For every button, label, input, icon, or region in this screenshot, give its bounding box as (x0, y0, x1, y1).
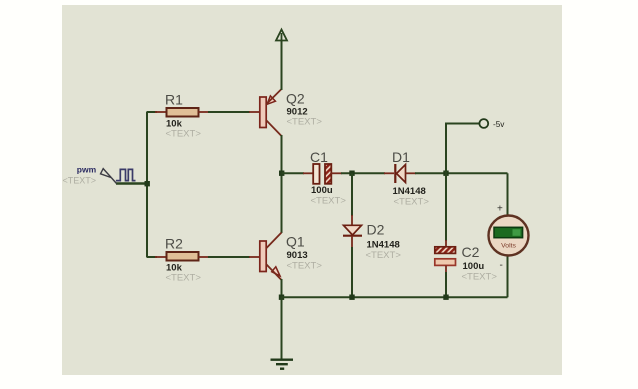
svg-text:<TEXT>: <TEXT> (366, 250, 402, 261)
wire: Q1 emitter to bottom rail (281, 279, 283, 298)
pwm square-wave glyph (116, 169, 136, 180)
svg-text:D2: D2 (367, 222, 385, 238)
wire: node IN vertical (R1 left to R2 left) (146, 112, 148, 258)
wire: C2 to bottom rail (445, 272, 447, 297)
diode D1 (1N4148) (395, 164, 405, 183)
wire: C1 right pin (331, 172, 342, 174)
wire: C1 left pin (303, 172, 313, 174)
wire: D2 bottom pin (351, 236, 353, 248)
C1 right plate (hatched) (325, 164, 331, 184)
voltmeter display (494, 227, 523, 237)
junction: D2 bottom (349, 295, 354, 300)
svg-text:<TEXT>: <TEXT> (311, 196, 347, 207)
wire: R2 to Q1 base (208, 256, 250, 258)
svg-text:<TEXT>: <TEXT> (166, 129, 202, 140)
D2 triangle (344, 225, 362, 235)
Q2 emitter arrow (PNP, pointing to base) (267, 96, 275, 104)
C2 bottom plate (435, 259, 456, 266)
svg-text:Q1: Q1 (286, 234, 305, 250)
svg-text:C2: C2 (462, 244, 480, 260)
D2 cathode bar (343, 235, 362, 237)
power terminal arrow (+V) (276, 30, 287, 41)
svg-text:100u: 100u (463, 261, 485, 272)
wire: R1 left pin area (147, 111, 157, 113)
wire: ground stem (281, 297, 283, 359)
ground (271, 360, 294, 369)
wire: Q2 emitter up to power (281, 40, 283, 90)
wire: R2 left pin area (147, 256, 157, 258)
wire: C1 to D2 node (341, 172, 385, 174)
wire: down to voltmeter + (507, 173, 509, 215)
wire: bottom rail (282, 296, 508, 298)
Q2 base bar (260, 97, 266, 128)
wire: D1 to -5v node (415, 172, 508, 174)
transistor Q2 (PNP 9012) (260, 89, 282, 136)
junction: D2 branch (349, 171, 354, 176)
svg-text:R2: R2 (165, 236, 183, 252)
svg-text:+: + (497, 204, 503, 215)
svg-text:-: - (500, 260, 503, 271)
schematic canvas (62, 5, 562, 375)
resistor R1 (167, 108, 199, 117)
svg-text:9013: 9013 (287, 250, 308, 261)
Q1 emitter arrow (NPN, pointing out) (272, 267, 280, 276)
diode D2 (1N4148, pointing down) (343, 225, 362, 235)
Q2 collector slant (266, 120, 282, 136)
wire: pwm horizontal into node IN (116, 182, 148, 185)
wire: C2 branch vertical top (445, 173, 447, 241)
transistor Q1 (NPN 9013) (260, 233, 282, 281)
resistor R2 (167, 252, 199, 261)
wire: R2 right pin (199, 256, 210, 258)
svg-text:Volts: Volts (501, 243, 516, 250)
capacitor C1 (100u) (313, 164, 331, 184)
capacitor C2 (100u polarized) (435, 247, 456, 266)
C1 left plate (313, 164, 319, 184)
junction: -5v / C2 node (443, 171, 448, 176)
svg-text:<TEXT>: <TEXT> (166, 273, 202, 284)
wire: R1 right pin (199, 111, 210, 113)
wire: -5v node up and to terminal (446, 124, 480, 174)
wire: rail up to voltmeter - (507, 256, 509, 298)
svg-text:1N4148: 1N4148 (393, 186, 426, 197)
junction: ground node (279, 295, 284, 300)
junction: C2 bottom (443, 295, 448, 300)
input terminal pwm (101, 169, 117, 184)
D1 cathode bar (394, 164, 396, 183)
wire: D1 left pin (384, 172, 394, 174)
Q1 base bar (260, 241, 266, 272)
svg-text:C1: C1 (310, 149, 328, 165)
svg-text:<TEXT>: <TEXT> (394, 197, 430, 208)
junction: mid rail / C1 branch (279, 171, 284, 176)
wire: Q1 base pin (249, 256, 260, 258)
svg-text:pwm: pwm (77, 165, 97, 175)
wire: Q2 base pin (249, 111, 260, 113)
svg-text:Q2: Q2 (286, 91, 305, 107)
wire: D1 right pin (406, 172, 417, 174)
svg-text:<TEXT>: <TEXT> (287, 261, 323, 272)
svg-text:D1: D1 (392, 149, 410, 165)
svg-text:<TEXT>: <TEXT> (63, 176, 97, 186)
wire: D2 to bottom rail (351, 247, 353, 297)
Q1 collector slant (266, 233, 282, 249)
svg-text:1N4148: 1N4148 (367, 240, 400, 251)
svg-text:-5v: -5v (493, 120, 505, 129)
terminal -5v (circle) (479, 119, 488, 128)
wire: C2 bottom pin (445, 266, 447, 274)
voltmeter U1 (489, 204, 529, 272)
wire: R1 to Q2 base (208, 111, 250, 113)
Q1 emitter slant (266, 264, 282, 280)
wire: D2 branch vertical top (351, 173, 353, 216)
wire: rail to C1 (282, 172, 305, 174)
svg-text:100u: 100u (311, 185, 333, 196)
wire: mid rail vertical (Q2 collector to Q1 collector) (281, 135, 283, 233)
D1 triangle (397, 165, 406, 183)
voltmeter body (489, 216, 529, 256)
svg-text:R1: R1 (165, 92, 183, 108)
Q2 emitter slant (266, 89, 282, 105)
svg-text:<TEXT>: <TEXT> (462, 272, 498, 283)
junction: pwm / IN node (145, 181, 150, 186)
C2 top plate (hatched) (435, 247, 456, 254)
svg-text:<TEXT>: <TEXT> (287, 117, 323, 128)
